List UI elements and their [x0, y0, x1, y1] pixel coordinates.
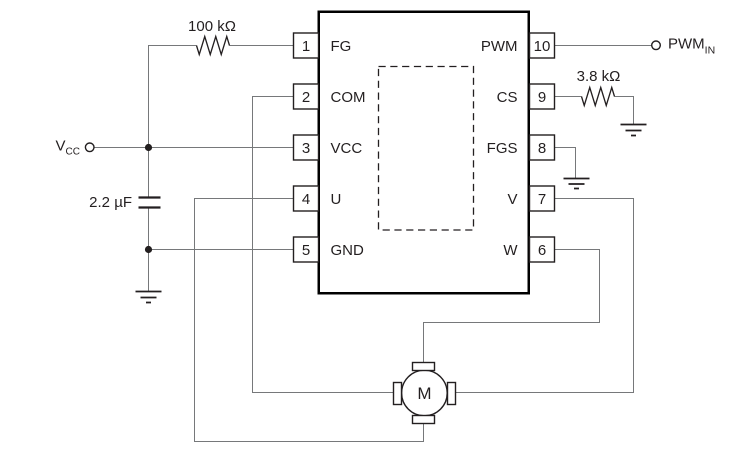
wire U pin 4 to motor bottom port — [195, 199, 424, 442]
svg-text:2.2 µF: 2.2 µF — [89, 194, 132, 211]
svg-text:GND: GND — [331, 242, 365, 259]
terminal PWM_IN — [652, 41, 661, 50]
IC body U1 — [319, 12, 529, 294]
ground at FGS — [564, 179, 590, 189]
capacitor C1 plates — [139, 198, 161, 208]
motor bottom port — [413, 416, 435, 424]
svg-text:5: 5 — [302, 242, 310, 259]
svg-text:3: 3 — [302, 140, 310, 157]
svg-text:7: 7 — [538, 191, 546, 208]
wire FGS pin 8 to ground — [555, 148, 576, 179]
svg-text:VCC: VCC — [331, 140, 363, 157]
svg-text:1: 1 — [302, 38, 310, 55]
wire COM pin 2 to motor left port — [253, 97, 395, 393]
svg-text:CS: CS — [497, 89, 518, 106]
wire 100k branch up and to pin 1 — [149, 46, 294, 148]
pin 9 box — [530, 84, 555, 109]
motor M circle — [402, 370, 448, 416]
pin 7 box — [530, 186, 555, 211]
svg-text:9: 9 — [538, 89, 546, 106]
svg-text:100 kΩ: 100 kΩ — [188, 18, 236, 35]
svg-text:U: U — [331, 191, 342, 208]
dashed internal block — [379, 67, 474, 231]
svg-text:2: 2 — [302, 89, 310, 106]
svg-text:10: 10 — [534, 38, 551, 55]
svg-text:V: V — [507, 191, 517, 208]
svg-text:M: M — [417, 384, 431, 403]
svg-text:3.8 kΩ: 3.8 kΩ — [577, 68, 621, 85]
pin 3 box — [294, 135, 319, 160]
svg-text:FGS: FGS — [487, 140, 518, 157]
pin 1 box — [294, 33, 319, 58]
pin 6 box — [530, 237, 555, 262]
motor right port — [448, 383, 456, 405]
motor top port — [413, 363, 435, 371]
svg-text:8: 8 — [538, 140, 546, 157]
resistor R2 3.8 kOhm — [582, 88, 615, 106]
wire ground rail to GND pin 5 — [149, 249, 294, 251]
junction dot GND rail — [145, 246, 152, 253]
svg-text:PWM: PWM — [481, 38, 518, 55]
pin 2 box — [294, 84, 319, 109]
pin 5 box — [294, 237, 319, 262]
wire W pin 6 to motor top port — [424, 250, 600, 363]
pin 4 box — [294, 186, 319, 211]
ground at 3.8k resistor — [621, 125, 647, 136]
svg-text:COM: COM — [331, 89, 366, 106]
ground at capacitor — [136, 292, 162, 303]
wire CS pin 9 through resistor to ground — [555, 97, 634, 125]
wire PWM pin 10 to PWM_IN terminal — [555, 45, 653, 47]
svg-text:6: 6 — [538, 242, 546, 259]
wire junction to capacitor top plate — [148, 148, 150, 198]
resistor R1 100 kOhm — [197, 37, 230, 55]
svg-text:FG: FG — [331, 38, 352, 55]
pin 8 box — [530, 135, 555, 160]
wire capacitor bottom to ground — [148, 208, 150, 292]
svg-text:4: 4 — [302, 191, 310, 208]
pin 10 box — [530, 33, 555, 58]
wire VCC rail horizontal — [94, 147, 294, 149]
terminal VCC — [85, 143, 94, 152]
wire V pin 7 to motor right port — [455, 199, 634, 393]
junction dot VCC rail — [145, 144, 152, 151]
motor left port — [394, 383, 402, 405]
svg-text:W: W — [503, 242, 518, 259]
